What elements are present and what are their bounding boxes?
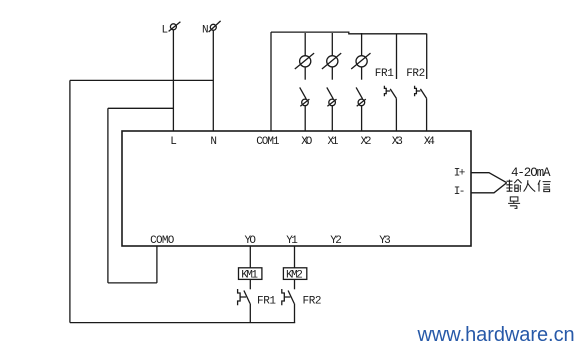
- svg-text:X4: X4: [424, 136, 435, 148]
- thermal relay contact FR1 (output branch): [238, 289, 251, 323]
- wire bottom return rail: [70, 322, 295, 324]
- wire N drop to box: [212, 31, 214, 131]
- svg-text:COM1: COM1: [256, 136, 280, 148]
- svg-text:FR2: FR2: [303, 296, 322, 308]
- contactor coil KM1: [239, 268, 262, 280]
- PLC main unit box: [122, 131, 471, 246]
- svg-text:Y3: Y3: [379, 235, 391, 247]
- wire KM2 to FR2: [294, 279, 296, 289]
- label 输入信号 (input signal, hand drawn glyphs): [506, 179, 550, 208]
- wire COM0 drop: [156, 246, 158, 283]
- svg-text:Y1: Y1: [286, 235, 298, 247]
- wire left outer vertical: [69, 80, 71, 322]
- wire Y0 to KM1 coil: [249, 246, 251, 268]
- glyph 信: [538, 180, 551, 192]
- svg-text:X1: X1: [328, 136, 339, 148]
- sensor switch branch X1: [322, 33, 341, 131]
- svg-text:I-: I-: [454, 186, 466, 198]
- wire N rail horizontal: [70, 79, 213, 81]
- glyph 输: [506, 179, 521, 191]
- svg-text:KM2: KM2: [286, 270, 303, 282]
- terminal N (neutral input): [209, 21, 221, 32]
- wire left inner vertical: [107, 108, 109, 283]
- svg-text:FR2: FR2: [406, 68, 425, 80]
- svg-text:I+: I+: [454, 167, 466, 179]
- svg-text:Y2: Y2: [330, 235, 342, 247]
- svg-text:N: N: [202, 25, 209, 37]
- svg-text:L: L: [162, 25, 169, 37]
- svg-text:COMO: COMO: [150, 235, 175, 247]
- sensor switch branch X2: [351, 33, 370, 131]
- wire L rail horizontal: [108, 107, 173, 109]
- svg-text:N: N: [210, 136, 217, 148]
- svg-text:X2: X2: [361, 136, 372, 148]
- thermal relay contact FR2 (output branch): [282, 289, 295, 323]
- svg-text:FR1: FR1: [375, 68, 394, 80]
- contactor coil KM2: [283, 268, 306, 280]
- analog input pointer I+: [471, 173, 507, 183]
- svg-text:X3: X3: [392, 136, 403, 148]
- svg-text:KM1: KM1: [241, 270, 258, 282]
- wire KM1 to FR1: [249, 279, 251, 289]
- wire COM1 drop: [270, 32, 272, 131]
- wire L drop to box: [172, 30, 174, 131]
- svg-text:L: L: [170, 136, 177, 148]
- svg-text:www.hardware.cn: www.hardware.cn: [417, 324, 575, 346]
- wire COM0 link horizontal: [108, 282, 157, 284]
- glyph 号: [508, 197, 520, 209]
- svg-text:XO: XO: [301, 136, 312, 148]
- thermal relay contact FR2 (input X4): [415, 34, 427, 131]
- wire input top bus: [271, 32, 427, 34]
- terminal L (phase input): [169, 22, 181, 32]
- analog input pointer I-: [471, 183, 507, 193]
- sensor switch branch X0: [295, 33, 314, 131]
- svg-text:FR1: FR1: [257, 296, 276, 308]
- wire Y1 to KM2 coil: [294, 246, 296, 268]
- svg-text:4-2OmA: 4-2OmA: [511, 166, 551, 180]
- thermal relay contact FR1 (input X3): [384, 34, 396, 131]
- svg-text:YO: YO: [245, 235, 257, 247]
- glyph 入: [524, 180, 536, 191]
